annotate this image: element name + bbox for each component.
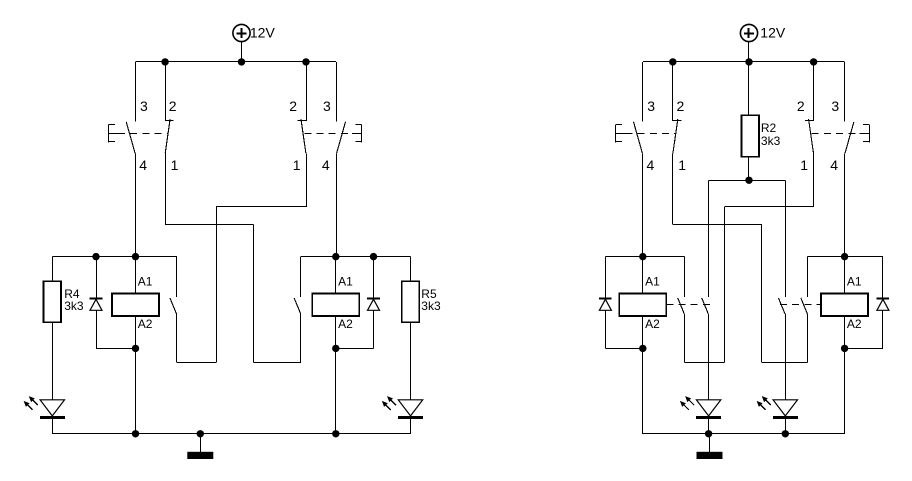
svg-text:A1: A1: [338, 274, 353, 288]
actuator dashed link S3: [625, 133, 675, 135]
switch NO contact blade S4 right circuit: [845, 122, 854, 154]
relay K4 mechanical dashed link: [780, 304, 821, 306]
LED LED2 left circuit: [382, 396, 423, 417]
junction dot K4 A2 node: [841, 345, 848, 352]
wire D1 bottom lead: [96, 310, 98, 348]
wire top bus left circuit: [136, 61, 337, 63]
wire K3 coil A1 lead: [642, 257, 644, 294]
junction dot bottom LED4: [782, 430, 789, 437]
junction dot K3 rail coil: [639, 253, 646, 260]
svg-text:3: 3: [323, 98, 331, 114]
svg-text:3k3: 3k3: [64, 299, 84, 313]
junction dot K3 A2 node: [639, 345, 646, 352]
junction dot K2 rail diode: [370, 253, 377, 260]
diode D1 left circuit: [90, 299, 103, 311]
svg-text:3k3: 3k3: [761, 134, 781, 148]
diode D3 right circuit: [599, 299, 612, 311]
wire K3 supply rail: [605, 256, 684, 258]
junction dot bus pin2-left right circuit: [669, 58, 676, 65]
relay coil K2: [312, 294, 359, 317]
pushbutton actuator bracket S1: [109, 124, 119, 142]
wire D3 bottom lead: [605, 310, 607, 348]
svg-text:A2: A2: [338, 317, 353, 331]
wire relay contact bottom K1 contact: [176, 314, 178, 362]
wire R5 top lead: [410, 257, 412, 282]
wire switch pin1 bottom S2 left circuit: [306, 153, 308, 207]
wire S4 pin1 vertical leg: [724, 207, 726, 362]
wire D3 top lead: [605, 257, 607, 299]
supply +12V right circuit: [740, 24, 757, 41]
wire switch pin1 bottom S4 right circuit: [813, 153, 815, 207]
wire K1 coil A2 lead: [135, 316, 137, 348]
wire K4 contact2 bottom to LED4: [785, 314, 787, 400]
wire switch pin3 top S3 right circuit: [642, 62, 644, 122]
junction dot bus pin2-left: [161, 58, 168, 65]
wire R4 top lead: [52, 257, 54, 282]
wire S1 pin1 to K2 contact bottom horizontal: [254, 362, 302, 364]
wire switch pin3 top S2 left circuit: [336, 62, 338, 122]
svg-text:4: 4: [139, 157, 147, 173]
wire S3 pin1 vertical leg: [761, 225, 763, 363]
wire K2 coil A2 lead: [335, 316, 337, 348]
wire LED2 to bottom rail: [410, 419, 412, 434]
wire D2 bottom lead: [373, 310, 375, 348]
wire K1 A2 to bottom rail: [135, 348, 137, 433]
relay coil K3: [619, 294, 666, 317]
relay contact blade K4 contact1: [801, 298, 808, 314]
junction dot K1 rail coil: [132, 253, 139, 260]
wire supply lead right circuit: [748, 42, 750, 62]
wire switch pin3 top S1 left circuit: [135, 62, 137, 122]
svg-text:3k3: 3k3: [421, 299, 441, 313]
switch NC contact blade S4 right circuit: [809, 119, 814, 153]
wire ground stub right circuit: [709, 434, 711, 452]
wire K2 A2 to bottom rail: [335, 348, 337, 433]
wire S2 pin1 to K1 contact horizontal: [216, 206, 306, 208]
wire switch pin2 top S4 right circuit: [813, 62, 815, 121]
relay K3 mechanical dashed link: [666, 304, 710, 306]
resistor R5: [402, 281, 420, 322]
wire D1 to coil A2 node: [96, 348, 136, 350]
wire switch pin3 top S4 right circuit: [844, 62, 846, 122]
svg-text:1: 1: [171, 157, 179, 173]
svg-text:A1: A1: [645, 274, 660, 288]
wire S1 pin1 to K2 contact horizontal: [165, 224, 253, 226]
wire switch pin4 bottom S3 right circuit: [642, 153, 644, 256]
svg-text:2: 2: [677, 98, 685, 114]
diode D2 left circuit: [367, 299, 380, 311]
relay coil K4: [821, 294, 868, 317]
wire switch pin2 top S2 left circuit: [306, 62, 308, 121]
wire S2 pin1 to K1 contact vertical: [216, 207, 218, 362]
wire LED4 to bottom rail: [785, 419, 787, 434]
svg-text:1: 1: [800, 157, 808, 173]
switch NO contact blade S1 left circuit: [126, 122, 135, 154]
wire R2 split horizontal: [709, 180, 786, 182]
wire D4 top lead: [882, 257, 884, 299]
wire switch pin2 top S1 left circuit: [165, 62, 167, 121]
wire S3 pin1 horizontal: [673, 224, 762, 226]
switch NC contact tick S1 left circuit: [165, 120, 174, 122]
wire S2 pin1 to K1 contact bottom horizontal: [177, 362, 216, 364]
svg-text:A1: A1: [138, 274, 153, 288]
supply +12V left circuit: [233, 24, 250, 41]
svg-text:A2: A2: [847, 317, 862, 331]
wire R2 top lead: [748, 62, 750, 115]
junction dot bus pin2-right right circuit: [810, 58, 817, 65]
wire S4 pin1 horizontal: [725, 206, 814, 208]
wire D2 to coil A2 node: [336, 348, 374, 350]
wire K4 supply rail: [808, 256, 883, 258]
LED LED4 right circuit: [757, 396, 798, 417]
wire supply lead left circuit: [241, 42, 243, 62]
wire relay contact top K4 contact1: [807, 257, 809, 298]
wire switch pin4 bottom S1 left circuit: [135, 153, 137, 256]
wire S4 pin1 to K3 contact bottom: [685, 362, 725, 364]
relay contact blade K3 contact1: [678, 298, 685, 314]
svg-text:A2: A2: [645, 317, 660, 331]
svg-text:12V: 12V: [250, 25, 276, 41]
resistor R2: [741, 115, 759, 156]
wire K3 contact2 bottom to LED3: [708, 314, 710, 400]
svg-text:3: 3: [647, 98, 655, 114]
switch NC contact blade S1 left circuit: [165, 119, 170, 153]
relay contact blade K2 contact: [294, 298, 301, 314]
switch NC contact blade S3 right circuit: [673, 119, 678, 153]
svg-text:12V: 12V: [760, 25, 786, 41]
wire top bus right circuit: [643, 61, 845, 63]
pushbutton actuator bracket S2: [352, 124, 362, 142]
wire relay contact bottom K3 contact1: [684, 314, 686, 362]
wire R2 right leg to K4 contact2: [785, 180, 787, 297]
wire bottom rail right circuit: [643, 433, 845, 435]
wire K4 A2 to bottom rail: [844, 348, 846, 433]
switch NC contact tick S4 right circuit: [805, 120, 814, 122]
pushbutton actuator bracket S4: [860, 124, 870, 142]
relay contact blade K1 contact: [170, 298, 177, 314]
wire R4 to LED1: [52, 322, 54, 400]
junction dot bottom LED3: [705, 430, 712, 437]
wire K2 coil A1 lead: [335, 257, 337, 294]
wire relay contact top K2 contact: [300, 257, 302, 298]
junction dot K4 rail coil: [841, 253, 848, 260]
junction dot bottom K2: [332, 430, 339, 437]
svg-text:4: 4: [647, 157, 655, 173]
resistor R4: [44, 281, 62, 322]
wire K4 coil A1 lead: [844, 257, 846, 294]
wire K1 coil A1 lead: [135, 257, 137, 294]
wire D1 top lead: [96, 257, 98, 299]
junction dot bus pin2-right: [302, 58, 309, 65]
relay K4 contact2 blade: [778, 298, 785, 314]
LED LED1 left circuit: [24, 396, 65, 417]
wire relay contact top K1 contact: [176, 257, 178, 298]
svg-text:2: 2: [169, 98, 177, 114]
junction dot K1 rail diode: [92, 253, 99, 260]
svg-text:A2: A2: [138, 317, 153, 331]
svg-text:1: 1: [293, 157, 301, 173]
wire bottom rail left circuit: [52, 433, 410, 435]
actuator dashed link S2: [304, 133, 352, 135]
wire relay contact bottom K2 contact: [300, 314, 302, 362]
switch NC contact blade S2 left circuit: [301, 119, 306, 153]
junction dot R2 split node: [745, 177, 752, 184]
junction dot bus supply left: [238, 58, 245, 65]
junction dot bottom ground left: [197, 430, 204, 437]
wire D2 top lead: [373, 257, 375, 299]
wire R2 bottom lead: [748, 157, 750, 181]
wire R2 left leg to K3 contact2: [708, 180, 710, 297]
pushbutton actuator bracket S3: [616, 124, 626, 142]
wire switch pin1 bottom S3 right circuit: [672, 153, 674, 224]
diode D4 right circuit: [877, 299, 890, 311]
wire LED3 to bottom rail: [708, 419, 710, 434]
svg-text:4: 4: [830, 157, 838, 173]
wire S3 pin1 to K4 contact bottom: [762, 362, 808, 364]
svg-text:2: 2: [797, 98, 805, 114]
ground symbol right circuit: [697, 452, 723, 459]
wire K2 supply rail: [301, 256, 411, 258]
wire D4 bottom lead: [882, 310, 884, 348]
junction dot K1 A2 node: [132, 345, 139, 352]
junction dot bus supply right circuit: [745, 58, 752, 65]
wire K1 supply rail: [52, 256, 177, 258]
wire S1 pin1 to K2 contact vertical: [253, 225, 255, 363]
wire relay contact top K3 contact1: [684, 257, 686, 298]
actuator dashed link S1: [118, 133, 168, 135]
wire K4 coil A2 lead: [844, 316, 846, 348]
relay K3 contact2 blade: [702, 298, 709, 314]
wire D4 to coil A2 node: [845, 348, 883, 350]
wire relay contact bottom K4 contact1: [807, 314, 809, 362]
switch NC contact tick S3 right circuit: [673, 120, 682, 122]
wire K3 coil A2 lead: [642, 316, 644, 348]
wire D3 to coil A2 node: [605, 348, 642, 350]
junction dot K2 A2 node: [332, 345, 339, 352]
switch NO contact blade S3 right circuit: [634, 122, 643, 154]
actuator dashed link S4: [812, 133, 860, 135]
svg-text:4: 4: [322, 157, 330, 173]
svg-text:3: 3: [140, 98, 148, 114]
svg-text:3: 3: [831, 98, 839, 114]
wire LED1 to bottom rail: [52, 419, 54, 434]
junction dot K2 rail coil: [332, 253, 339, 260]
svg-text:A1: A1: [847, 274, 862, 288]
ground symbol left circuit: [187, 452, 213, 459]
wire R5 to LED2: [410, 322, 412, 400]
svg-text:2: 2: [289, 98, 297, 114]
relay coil K1: [112, 294, 159, 317]
wire K3 A2 to bottom rail: [642, 348, 644, 433]
switch NO contact blade S2 left circuit: [337, 122, 346, 154]
wire switch pin1 bottom S1 left circuit: [165, 153, 167, 224]
junction dot bottom K1: [132, 430, 139, 437]
svg-text:1: 1: [678, 157, 686, 173]
wire switch pin4 bottom S2 left circuit: [336, 153, 338, 256]
wire switch pin2 top S3 right circuit: [672, 62, 674, 121]
wire ground stub left circuit: [200, 434, 202, 452]
switch NC contact tick S2 left circuit: [297, 120, 306, 122]
wire switch pin4 bottom S4 right circuit: [844, 153, 846, 256]
LED LED3 right circuit: [680, 396, 721, 417]
